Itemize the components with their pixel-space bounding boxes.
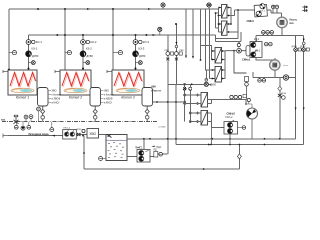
svg-text:к Котлам: к Котлам <box>104 95 114 97</box>
gauge drain 2 <box>93 116 97 120</box>
separator vessel boiler K2 <box>90 88 101 107</box>
wire drop x200.5 <box>200 9 202 60</box>
tank water speckles <box>108 142 125 158</box>
svg-text:РД: РД <box>154 150 157 152</box>
arrow label at РД <box>152 146 163 149</box>
thermometer gauge riser 3 <box>113 51 123 55</box>
HX B1 box <box>215 48 222 64</box>
svg-text:СМ№1: СМ№1 <box>242 58 251 62</box>
drain pipe vessel 1 <box>42 106 44 122</box>
svg-text:КЗ-1: КЗ-1 <box>32 47 38 51</box>
wire y35 gauge line <box>256 28 304 36</box>
wire pump circle feed <box>245 100 247 105</box>
svg-text:ХВО: ХВО <box>151 87 156 89</box>
svg-text:к Котлам: к Котлам <box>52 95 62 97</box>
stub lines vessel 1 <box>48 91 51 103</box>
burner flame boiler K2 <box>64 88 87 93</box>
wire drop x185 <box>185 9 187 58</box>
pump box A (КЭ) <box>250 39 262 58</box>
wire x279 drop <box>279 78 281 139</box>
heating coil shadow K1 <box>11 73 36 87</box>
gauges above C1 <box>271 5 278 9</box>
tank inlet valve <box>107 134 112 137</box>
smoke pump C1 (gray circle) <box>277 17 298 28</box>
junction dots HX-C feed <box>184 83 199 122</box>
wire HX-C right out <box>208 100 247 128</box>
gauges on y35 <box>262 31 274 35</box>
HX A2 box <box>222 21 228 35</box>
pump ЦН-2 <box>80 51 93 58</box>
thermometer gauge riser 1 <box>9 51 17 55</box>
separator vessel boiler K1 <box>38 88 49 107</box>
gas header line <box>2 121 158 123</box>
flange stub boiler K1 <box>3 70 8 73</box>
svg-text:ДУ80: ДУ80 <box>139 54 146 58</box>
heating coil boiler K3 <box>114 73 142 87</box>
water inlet flange <box>3 134 8 138</box>
svg-text:РД-1: РД-1 <box>157 147 163 149</box>
svg-text:Котел 3: Котел 3 <box>121 96 134 100</box>
twin pump box КЭ <box>224 112 238 135</box>
svg-text:СМН1: СМН1 <box>247 19 255 23</box>
svg-text:ДУ50: ДУ50 <box>300 46 306 48</box>
wire riser boiler1 <box>8 9 10 70</box>
water meter box ВУ <box>63 127 77 139</box>
pump at HX-B <box>225 43 251 74</box>
valve on water line before XBO <box>76 129 85 136</box>
wire riser boiler2 <box>64 9 66 70</box>
svg-text:ПВ2: ПВ2 <box>179 50 184 52</box>
wire inlet column boiler3 <box>135 35 137 70</box>
svg-text:ДУ80: ДУ80 <box>292 46 298 48</box>
svg-text:газ: газ <box>1 118 6 122</box>
wire y79.5 line <box>253 72 295 79</box>
gauge on x279.8 <box>280 93 287 99</box>
blowdown box at HX-B <box>245 77 249 87</box>
gauge under pump 1 <box>28 61 36 70</box>
wire separator3 to HX-C <box>153 84 202 121</box>
gas vent stub <box>37 107 41 122</box>
wire tank recirc <box>143 139 145 150</box>
svg-text:ДУ25: ДУ25 <box>76 129 82 131</box>
wire drop x205.5 <box>206 9 216 80</box>
lower gauge c <box>27 122 31 129</box>
wire inlet column boiler1 <box>28 35 30 70</box>
tank bottom gauge <box>99 157 106 161</box>
stub lines vessel 2 <box>101 91 104 103</box>
big sector pump <box>245 98 257 119</box>
water treatment box ХВО <box>87 129 99 139</box>
wire HX-B crossover <box>209 51 225 79</box>
svg-text:ДУ80: ДУ80 <box>32 54 39 58</box>
valve on mixing line <box>191 78 217 86</box>
water arrow <box>52 135 55 137</box>
tank water level <box>106 139 127 141</box>
svg-text:КН-1,2: КН-1,2 <box>64 127 71 129</box>
junction dots main <box>8 8 281 170</box>
svg-text:——: —— <box>283 64 289 67</box>
wire riser boiler3 <box>112 9 114 70</box>
svg-text:Котел 2: Котел 2 <box>69 96 82 100</box>
svg-text:КЗ-3: КЗ-3 <box>139 47 145 51</box>
wire pump РД chain <box>150 154 168 156</box>
wire C2 down <box>274 70 276 77</box>
svg-text:КЭ-1: КЭ-1 <box>260 11 266 13</box>
valve T1 <box>292 46 302 51</box>
wire bottom loop <box>84 136 239 169</box>
pump ЦН-1 <box>26 51 39 58</box>
gas gate valve with actuator <box>14 115 19 124</box>
wire second header H2 <box>29 34 214 36</box>
svg-text:ПН-1,2: ПН-1,2 <box>135 148 143 150</box>
svg-text:в ХВОФ: в ХВОФ <box>104 98 113 101</box>
burner flame boiler K3 <box>116 88 140 93</box>
wire HX-A left piping <box>213 8 238 42</box>
wire return line y144.5 <box>176 84 304 145</box>
vent valve on H1 right <box>206 3 212 9</box>
arrow tips manifold <box>185 56 201 61</box>
wire tank bottom out <box>127 156 137 158</box>
tank body <box>106 135 127 161</box>
wire meter to XBO <box>76 134 87 136</box>
check valve bottom loop <box>237 154 241 159</box>
boiler K3 box <box>112 70 144 95</box>
gas gauge A <box>24 115 28 122</box>
svg-text:в КНСУ: в КНСУ <box>104 103 112 105</box>
separator vessel boiler K3 <box>142 88 153 107</box>
lower pump b <box>21 122 25 130</box>
svg-text:КЭ-1,2: КЭ-1,2 <box>226 117 234 119</box>
drain pipe vessel 2 <box>94 106 96 122</box>
stub lines vessel 3 <box>153 87 156 91</box>
arrows into HX-B <box>212 50 215 80</box>
svg-text:ДУ80: ДУ80 <box>87 54 94 58</box>
wire top header H1 <box>9 8 213 10</box>
wire top H1 to pump unit <box>241 9 255 11</box>
svg-text:№1: №1 <box>290 22 295 25</box>
svg-text:в ХВОФ: в ХВОФ <box>52 98 61 101</box>
valve КО-1 <box>26 40 42 45</box>
vent valve on H2 <box>158 27 162 35</box>
gauge on HX-C feed <box>183 87 192 90</box>
gauges on y79.5 <box>258 79 266 83</box>
svg-text:Котел 1: Котел 1 <box>16 96 29 100</box>
gauges on HX-C out <box>230 94 247 99</box>
drain gauge d <box>50 122 54 132</box>
wire drop x209.3 <box>208 9 210 79</box>
svg-text:ХВО: ХВО <box>52 91 57 93</box>
heating coil boiler K1 <box>10 73 36 87</box>
wire mixing line y84 <box>168 84 212 154</box>
wire drop x176 <box>168 24 177 102</box>
smoke pump C2 (gray circle) <box>270 60 289 70</box>
end flange top right <box>302 6 307 13</box>
burner flame boiler K1 <box>11 88 34 93</box>
feed pump box ПН <box>135 147 150 163</box>
junction dots HX-A <box>228 7 230 9</box>
boiler K1 box <box>8 70 37 95</box>
wire return line y138.8 <box>127 138 296 140</box>
svg-text:КО-1: КО-1 <box>36 40 43 44</box>
flange stub boiler K2 <box>55 70 60 73</box>
wire pump box A drop <box>256 35 275 59</box>
motor valve M on x176 <box>165 42 185 60</box>
wire KЭ box down <box>212 86 247 144</box>
HX B2 box <box>215 67 222 83</box>
wire drop x197 <box>192 9 194 58</box>
gauge under pump 2 <box>82 61 90 70</box>
flange stub boiler K3 <box>107 70 112 73</box>
top twin pump unit <box>247 3 268 23</box>
HX C2 box <box>201 111 208 126</box>
svg-text:в КНСУ: в КНСУ <box>52 103 60 105</box>
wire inlet column boiler2 <box>82 35 84 70</box>
heating coil boiler K2 <box>62 73 89 87</box>
svg-text:КО-3: КО-3 <box>143 40 150 44</box>
drain pipe vessel 3 <box>146 106 148 122</box>
thermometer gauge riser 2 <box>65 51 72 55</box>
vent valve on H1 left <box>161 3 165 9</box>
svg-text:ДУ50: ДУ50 <box>210 84 216 87</box>
svg-text:ХВО: ХВО <box>104 91 109 93</box>
gauges right of box A <box>264 42 272 46</box>
svg-text:ДУ50: ДУ50 <box>281 93 287 95</box>
gauge under pump 3 <box>135 61 143 70</box>
check valve drain 2 <box>93 109 97 113</box>
arrows on return lines <box>208 138 213 146</box>
svg-text:ХВО: ХВО <box>89 132 96 136</box>
valve on x279.8 <box>278 94 282 97</box>
water line <box>8 135 63 137</box>
gauge right of KЭ box <box>238 126 246 130</box>
svg-text:Исходная вода: Исходная вода <box>29 132 49 136</box>
svg-text:КО-2: КО-2 <box>90 40 97 44</box>
arrow into HX A2 <box>219 23 222 25</box>
svg-text:от ГВС: от ГВС <box>159 126 166 128</box>
HX C1 box <box>201 93 208 108</box>
heating coil shadow K2 <box>63 73 89 87</box>
flow marks right verticals <box>295 108 305 111</box>
svg-text:КЭ-2: КЭ-2 <box>255 51 261 53</box>
wire sector pump down <box>251 119 253 139</box>
gauge after РД <box>159 152 163 156</box>
HX A1 box <box>222 5 228 19</box>
check valve drain 3 <box>145 109 149 113</box>
wire pump unit to C1 <box>267 9 282 18</box>
check valve on x279.8 <box>278 86 282 90</box>
wire HX-B top feed <box>201 46 216 60</box>
valve КО-3 <box>133 40 149 45</box>
wire right verticals <box>296 35 304 144</box>
svg-text:КЗ-2: КЗ-2 <box>86 47 92 51</box>
arrow into HX A1 <box>219 7 222 9</box>
gauge drain 3 <box>145 116 149 120</box>
flow meter double circle <box>283 75 288 80</box>
wire HX-A right piping <box>216 8 255 42</box>
lower gauge a <box>14 122 18 129</box>
svg-text:КЭ-1: КЭ-1 <box>254 39 260 41</box>
gauge drain 1 <box>41 116 45 120</box>
pressure regulator РД box <box>154 150 158 157</box>
valve КО-2 <box>81 40 97 45</box>
svg-text:СМ№2: СМ№2 <box>227 112 236 116</box>
svg-text:к Горелке: к Горелке <box>151 90 162 92</box>
heating coil shadow K3 <box>115 73 143 87</box>
valve T2 <box>300 39 309 52</box>
boiler K2 box <box>60 70 91 95</box>
wire XBO to tank <box>99 134 108 136</box>
check valve drain 1 <box>41 109 45 113</box>
gas gauge B <box>29 115 33 122</box>
pump ЦН-3 <box>133 51 146 58</box>
